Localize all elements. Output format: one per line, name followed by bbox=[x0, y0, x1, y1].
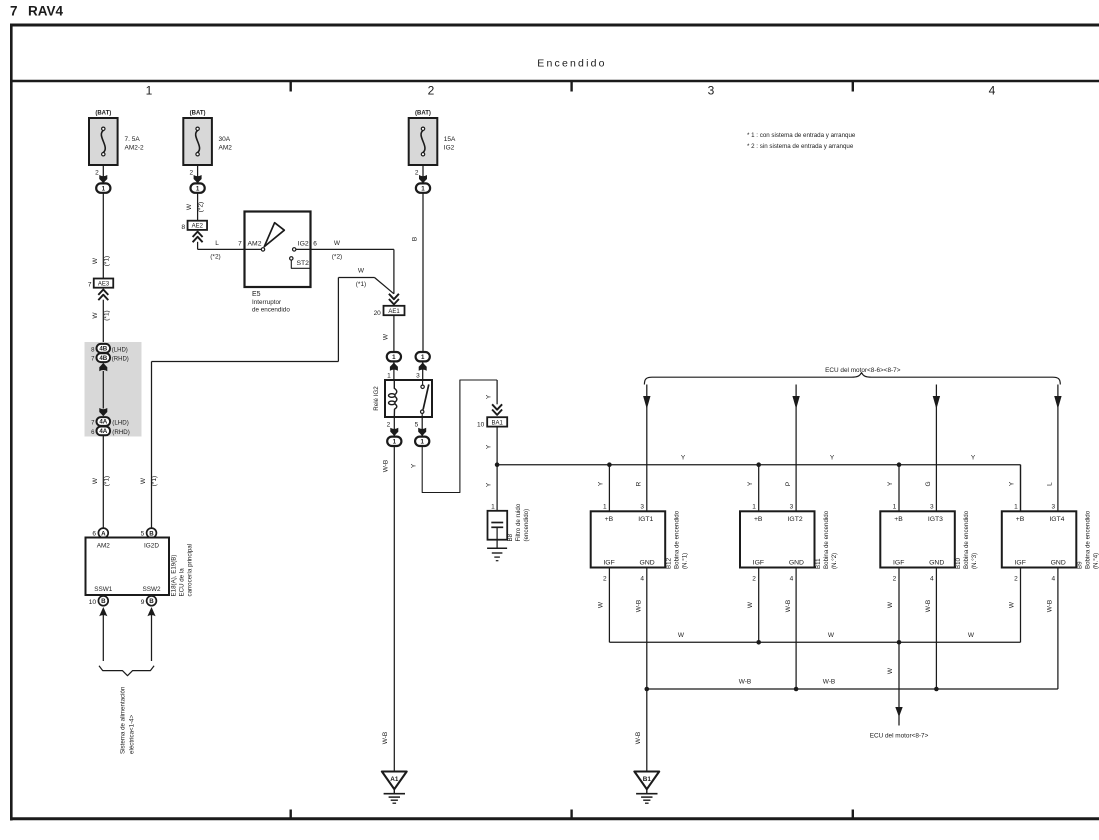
svg-text:Y: Y bbox=[485, 394, 492, 399]
svg-text:W: W bbox=[747, 601, 754, 608]
svg-text:2: 2 bbox=[1014, 576, 1018, 583]
svg-text:(*2): (*2) bbox=[210, 254, 220, 261]
svg-text:W: W bbox=[382, 333, 389, 340]
connector arrow below fuse IG2 bbox=[419, 175, 427, 183]
svg-text:Filtro de ruido: Filtro de ruido bbox=[515, 503, 522, 541]
svg-text:(N.°4): (N.°4) bbox=[1093, 553, 1099, 569]
svg-text:(BAT): (BAT) bbox=[95, 111, 111, 117]
svg-text:(encendido): (encendido) bbox=[523, 509, 530, 542]
svg-text:W-B: W-B bbox=[785, 600, 792, 613]
svg-text:+B: +B bbox=[1016, 516, 1025, 523]
svg-text:W: W bbox=[358, 268, 365, 275]
svg-text:1: 1 bbox=[752, 504, 756, 511]
svg-text:B: B bbox=[149, 530, 154, 537]
svg-text:IG2: IG2 bbox=[444, 145, 455, 152]
svg-text:(*2): (*2) bbox=[198, 202, 205, 212]
svg-text:B: B bbox=[149, 598, 154, 605]
wire Y BA1 to junction bbox=[496, 427, 498, 465]
wire Y relay pin5 loop to BA1 bbox=[422, 380, 497, 493]
svg-text:RAV4: RAV4 bbox=[28, 4, 64, 19]
svg-text:Y: Y bbox=[887, 481, 894, 486]
svg-text:W: W bbox=[186, 203, 193, 210]
frame left border bbox=[10, 24, 13, 821]
svg-text:2: 2 bbox=[95, 170, 99, 177]
svg-text:E18(A), E19(B): E18(A), E19(B) bbox=[171, 555, 178, 597]
svg-text:Y: Y bbox=[681, 455, 686, 462]
svg-text:IGF: IGF bbox=[893, 560, 904, 567]
wire W IGF exit to ECU del motor 8-7 bbox=[898, 642, 900, 725]
svg-text:W-B: W-B bbox=[739, 679, 752, 686]
wire W (*1) 4A to ECU pin 6 bbox=[102, 436, 104, 529]
wire Y junction to noise filter B8 bbox=[496, 465, 498, 523]
svg-text:B9: B9 bbox=[1077, 561, 1084, 569]
wire W IGF of B10 bbox=[898, 568, 900, 643]
svg-text:carrocería principal: carrocería principal bbox=[187, 544, 194, 597]
svg-text:1: 1 bbox=[387, 373, 391, 380]
connector arrow below fuse AM2-2 bbox=[99, 175, 107, 183]
svg-text:R: R bbox=[636, 481, 643, 486]
wire W-B GND B10 to W-B bus bbox=[935, 568, 937, 690]
svg-text:W-B: W-B bbox=[1047, 600, 1054, 613]
svg-text:W-B: W-B bbox=[925, 600, 932, 613]
svg-text:AE3: AE3 bbox=[98, 282, 110, 288]
svg-text:L: L bbox=[1047, 482, 1054, 486]
svg-text:(LHD): (LHD) bbox=[112, 420, 129, 427]
svg-text:7: 7 bbox=[88, 282, 92, 289]
svg-text:W: W bbox=[598, 601, 605, 608]
W-B bus wire ground common bbox=[647, 688, 1058, 690]
connector BA1 chevron bbox=[492, 404, 502, 409]
svg-text:IGF: IGF bbox=[753, 560, 764, 567]
svg-text:1: 1 bbox=[146, 84, 153, 98]
svg-text:W-B: W-B bbox=[382, 732, 389, 745]
svg-text:Interruptor: Interruptor bbox=[252, 299, 281, 306]
svg-text:1: 1 bbox=[196, 185, 200, 192]
svg-text:4: 4 bbox=[1051, 576, 1055, 583]
svg-text:W: W bbox=[887, 601, 894, 608]
svg-text:(*1): (*1) bbox=[104, 310, 111, 320]
header separator line bbox=[10, 80, 1099, 82]
wire fuse AM2-2 pin 2 to connector bbox=[102, 165, 104, 184]
svg-text:W: W bbox=[334, 240, 341, 247]
brace to power source system bbox=[99, 666, 154, 676]
svg-text:3: 3 bbox=[790, 504, 794, 511]
svg-text:GND: GND bbox=[640, 560, 655, 567]
svg-text:Bobina de encendido: Bobina de encendido bbox=[823, 510, 830, 569]
W bus wire IGF common bbox=[609, 641, 1020, 643]
svg-text:B12: B12 bbox=[666, 557, 673, 569]
svg-text:B: B bbox=[101, 598, 106, 605]
svg-text:A: A bbox=[101, 530, 106, 537]
connector oval relay pin1 side bbox=[387, 352, 401, 361]
wire W IGF of B11 bbox=[758, 568, 760, 643]
svg-text:8: 8 bbox=[181, 224, 185, 231]
svg-text:Bobina de encendido: Bobina de encendido bbox=[674, 510, 681, 569]
wire W IGF of B9 bbox=[1020, 568, 1022, 643]
svg-text:ST2: ST2 bbox=[297, 260, 310, 267]
svg-text:1: 1 bbox=[421, 354, 425, 361]
svg-text:A1: A1 bbox=[390, 776, 399, 783]
svg-text:P: P bbox=[785, 482, 792, 486]
arrow into SSW1 bbox=[99, 607, 107, 616]
svg-text:1: 1 bbox=[491, 504, 495, 511]
svg-text:4B: 4B bbox=[99, 346, 107, 353]
relay coil bbox=[394, 380, 396, 395]
junction dots on W-B bus bbox=[645, 687, 650, 692]
svg-text:BA1: BA1 bbox=[492, 420, 504, 426]
svg-text:(*1): (*1) bbox=[104, 476, 111, 486]
svg-text:B8: B8 bbox=[507, 533, 514, 541]
svg-text:1: 1 bbox=[1014, 504, 1018, 511]
svg-text:1: 1 bbox=[603, 504, 607, 511]
svg-text:Y: Y bbox=[598, 481, 605, 486]
svg-text:(*1): (*1) bbox=[104, 256, 111, 266]
svg-text:IG2D: IG2D bbox=[144, 543, 159, 550]
frame bottom border bbox=[10, 817, 1099, 820]
svg-text:AE1: AE1 bbox=[388, 309, 400, 315]
svg-text:W: W bbox=[140, 477, 147, 484]
svg-text:Relé IG2: Relé IG2 bbox=[373, 386, 380, 411]
wire W (*1) ECU pin 5 to connector AE1 bbox=[151, 362, 153, 529]
svg-text:(LHD): (LHD) bbox=[112, 347, 128, 353]
svg-text:30A: 30A bbox=[219, 136, 231, 143]
svg-text:7. 5A: 7. 5A bbox=[125, 136, 141, 143]
svg-text:4: 4 bbox=[989, 84, 996, 98]
ignition switch E5 box bbox=[245, 212, 311, 288]
arrow into SSW2 bbox=[147, 607, 155, 616]
wire W-B GND B12 down to ground B1 bbox=[646, 568, 648, 772]
svg-text:7: 7 bbox=[10, 4, 18, 19]
brace ECU del motor bbox=[644, 373, 1060, 385]
svg-text:W: W bbox=[828, 632, 835, 639]
svg-text:ECU de la: ECU de la bbox=[179, 568, 186, 597]
svg-text:W: W bbox=[968, 632, 975, 639]
svg-text:W-B: W-B bbox=[823, 679, 836, 686]
svg-text:3: 3 bbox=[708, 84, 715, 98]
svg-text:3: 3 bbox=[640, 504, 644, 511]
wire B fuse IG2 to relay pin 3 bbox=[422, 193, 424, 353]
svg-text:4: 4 bbox=[790, 576, 794, 583]
svg-text:W: W bbox=[92, 477, 99, 484]
svg-text:IGT1: IGT1 bbox=[638, 516, 653, 523]
svg-text:(*2): (*2) bbox=[332, 254, 342, 261]
svg-text:+B: +B bbox=[894, 516, 903, 523]
svg-text:(N.°3): (N.°3) bbox=[971, 553, 978, 569]
svg-text:AM2-2: AM2-2 bbox=[125, 145, 145, 152]
svg-text:* 1 : con sistema de entrada y: * 1 : con sistema de entrada y arranque bbox=[747, 132, 856, 139]
connector AE1 chevron bbox=[389, 294, 399, 299]
svg-text:E5: E5 bbox=[252, 291, 261, 298]
svg-text:4A: 4A bbox=[99, 428, 107, 435]
connector arrow down to 4A bbox=[99, 408, 107, 416]
wire W-B GND B9 to W-B bus bbox=[1057, 568, 1059, 690]
svg-text:(RHD): (RHD) bbox=[112, 429, 130, 436]
connector AE3 chevron bbox=[98, 290, 108, 295]
svg-text:(N.°2): (N.°2) bbox=[831, 553, 838, 569]
svg-text:1: 1 bbox=[421, 185, 425, 192]
svg-text:eléctrica<1-4>: eléctrica<1-4> bbox=[129, 714, 136, 754]
connector oval 1 below fuse AM2-2 bbox=[96, 183, 110, 192]
svg-text:W-B: W-B bbox=[635, 732, 642, 745]
svg-text:Bobina de encendido: Bobina de encendido bbox=[1085, 510, 1092, 569]
svg-text:(N.°1): (N.°1) bbox=[682, 553, 689, 569]
capacitor plates bbox=[491, 522, 503, 524]
wire fuse AM2 pin 2 to connector bbox=[197, 165, 199, 184]
wire Y bus to +B of B9 bbox=[1020, 465, 1022, 512]
svg-text:20: 20 bbox=[374, 310, 382, 317]
svg-text:2: 2 bbox=[415, 170, 419, 177]
svg-text:Sistema de alimentación: Sistema de alimentación bbox=[120, 686, 127, 754]
svg-text:4: 4 bbox=[930, 576, 934, 583]
ECU E18(A) E19(B) main body ECU box bbox=[86, 538, 170, 596]
svg-text:(BAT): (BAT) bbox=[415, 111, 431, 117]
svg-text:3: 3 bbox=[930, 504, 934, 511]
svg-text:2: 2 bbox=[752, 576, 756, 583]
wire arrow from ECU to IGT2 bbox=[795, 385, 797, 512]
relay switch contacts bbox=[421, 385, 424, 388]
svg-text:AE2: AE2 bbox=[192, 224, 204, 230]
svg-text:de encendido: de encendido bbox=[252, 306, 290, 313]
wire fuse IG2 pin 2 to connector bbox=[422, 165, 424, 184]
svg-text:(RHD): (RHD) bbox=[112, 357, 129, 363]
svg-text:1: 1 bbox=[392, 354, 396, 361]
svg-text:4B: 4B bbox=[99, 355, 107, 362]
wire Y bus to +B of B11 bbox=[758, 465, 760, 512]
svg-text:2: 2 bbox=[387, 422, 391, 429]
svg-text:AM2: AM2 bbox=[248, 240, 262, 247]
svg-text:G: G bbox=[925, 481, 932, 486]
connector oval 1 below fuse IG2 bbox=[416, 183, 430, 192]
shaded LHD/RHD junction block bbox=[85, 342, 142, 437]
svg-text:ECU del motor<8-6><8-7>: ECU del motor<8-6><8-7> bbox=[825, 367, 901, 374]
svg-text:W: W bbox=[887, 667, 894, 674]
wire W IGF of B12 bbox=[608, 568, 610, 643]
wire arrow from ECU to IGT4 bbox=[1057, 385, 1059, 512]
svg-text:IGF: IGF bbox=[1015, 560, 1026, 567]
svg-text:2: 2 bbox=[428, 84, 435, 98]
wire Y bus to +B of B10 bbox=[898, 465, 900, 512]
svg-text:+B: +B bbox=[605, 516, 614, 523]
svg-text:10: 10 bbox=[477, 421, 485, 428]
svg-text:B11: B11 bbox=[815, 558, 822, 569]
svg-text:(*1): (*1) bbox=[151, 476, 158, 486]
junction node Y bbox=[495, 462, 500, 467]
wire W-B relay pin2 to ground A1 bbox=[393, 446, 395, 772]
svg-text:(*1): (*1) bbox=[356, 281, 366, 288]
svg-text:AM2: AM2 bbox=[97, 543, 111, 550]
svg-text:6: 6 bbox=[313, 240, 317, 247]
svg-text:2: 2 bbox=[893, 576, 897, 583]
svg-text:Y: Y bbox=[830, 455, 835, 462]
wire W (*1) fuse AM2-2 to connector AE3 bbox=[102, 193, 104, 279]
frame top border bbox=[10, 24, 1099, 27]
svg-text:Bobina de encendido: Bobina de encendido bbox=[963, 510, 970, 569]
svg-text:Y: Y bbox=[410, 463, 417, 468]
wire W-B GND B11 to W-B bus bbox=[795, 568, 797, 690]
svg-text:3: 3 bbox=[1051, 504, 1055, 511]
svg-text:ECU del motor<8-7>: ECU del motor<8-7> bbox=[870, 733, 929, 740]
svg-text:W: W bbox=[678, 632, 685, 639]
relay Rele IG2 box bbox=[385, 380, 432, 417]
wire arrow from ECU to IGT3 bbox=[935, 385, 937, 512]
svg-text:W: W bbox=[1009, 601, 1016, 608]
svg-text:(BAT): (BAT) bbox=[190, 111, 206, 117]
svg-text:1: 1 bbox=[893, 504, 897, 511]
connector oval 1 below fuse AM2 bbox=[191, 183, 205, 192]
svg-text:1: 1 bbox=[102, 185, 106, 192]
svg-text:9: 9 bbox=[141, 599, 145, 606]
svg-text:Y: Y bbox=[485, 444, 492, 449]
svg-text:SSW1: SSW1 bbox=[94, 586, 113, 593]
junction dots on W bus bbox=[756, 640, 761, 645]
svg-text:L: L bbox=[215, 240, 219, 247]
Y bus wire bbox=[497, 464, 1020, 466]
svg-text:B10: B10 bbox=[955, 557, 962, 569]
svg-text:2: 2 bbox=[603, 576, 607, 583]
svg-text:W: W bbox=[92, 312, 99, 319]
svg-text:4A: 4A bbox=[99, 419, 107, 426]
svg-text:W-B: W-B bbox=[636, 600, 643, 613]
svg-text:W-B: W-B bbox=[383, 460, 390, 473]
column tick marks bottom bbox=[290, 810, 292, 819]
svg-text:Y: Y bbox=[485, 482, 492, 487]
column tick marks top bbox=[290, 81, 292, 92]
svg-text:SSW2: SSW2 bbox=[142, 586, 161, 593]
svg-text:* 2 : sin sistema de entrada y: * 2 : sin sistema de entrada y arranque bbox=[747, 143, 854, 150]
svg-text:IGT3: IGT3 bbox=[928, 516, 943, 523]
svg-text:IGT4: IGT4 bbox=[1049, 516, 1064, 523]
svg-text:7: 7 bbox=[238, 240, 242, 247]
svg-text:GND: GND bbox=[1051, 560, 1066, 567]
ground B1 bbox=[634, 772, 659, 790]
svg-text:Y: Y bbox=[1009, 481, 1016, 486]
connector oval relay pin3 side bbox=[416, 352, 430, 361]
connector arrow up to 4B bbox=[99, 363, 107, 371]
switch lever bbox=[264, 223, 284, 247]
svg-text:Y: Y bbox=[971, 455, 976, 462]
wire W (*2) fuse AM2 to connector AE2 bbox=[197, 193, 199, 222]
svg-text:GND: GND bbox=[929, 560, 944, 567]
svg-text:3: 3 bbox=[416, 373, 420, 380]
noise filter B8 box bbox=[488, 511, 508, 540]
wire Y into connector BA1 bbox=[496, 380, 498, 404]
junction dots on Y bus bbox=[607, 462, 612, 467]
svg-text:IGT2: IGT2 bbox=[788, 516, 803, 523]
wire L (*2) AE2 to ignition switch AM2 bbox=[197, 242, 199, 250]
E5 pin ST2 bbox=[290, 257, 293, 260]
svg-text:4: 4 bbox=[640, 576, 644, 583]
ground A1 bbox=[382, 772, 407, 790]
svg-text:GND: GND bbox=[789, 560, 804, 567]
svg-text:5: 5 bbox=[415, 422, 419, 429]
wire 4B to 4A bbox=[102, 371, 104, 409]
wire W (*2) IG2 to AE1 bbox=[296, 248, 394, 250]
svg-text:IGF: IGF bbox=[603, 560, 614, 567]
wire W (*1) AE3 to 4B junction bbox=[102, 300, 104, 344]
svg-text:2: 2 bbox=[189, 170, 193, 177]
wire Y bus to +B of B12 bbox=[608, 465, 610, 512]
svg-text:IG2: IG2 bbox=[298, 240, 309, 247]
svg-text:10: 10 bbox=[89, 599, 97, 606]
svg-text:1: 1 bbox=[393, 439, 397, 446]
svg-text:B: B bbox=[411, 237, 418, 241]
wire W AE1 to relay pin 1 bbox=[393, 315, 395, 352]
svg-text:1: 1 bbox=[420, 439, 424, 446]
svg-text:AM2: AM2 bbox=[219, 145, 233, 152]
connector AE2 chevron bbox=[193, 232, 203, 237]
svg-text:15A: 15A bbox=[444, 136, 456, 143]
wire arrow from ECU to IGT1 bbox=[646, 385, 648, 512]
svg-text:B1: B1 bbox=[643, 776, 652, 783]
earth ground below B8 bbox=[487, 547, 507, 549]
svg-text:Y: Y bbox=[747, 481, 754, 486]
connector arrow below fuse AM2 bbox=[194, 175, 202, 183]
svg-text:W: W bbox=[92, 257, 99, 264]
svg-text:+B: +B bbox=[754, 516, 763, 523]
svg-text:Encendido: Encendido bbox=[537, 58, 606, 70]
